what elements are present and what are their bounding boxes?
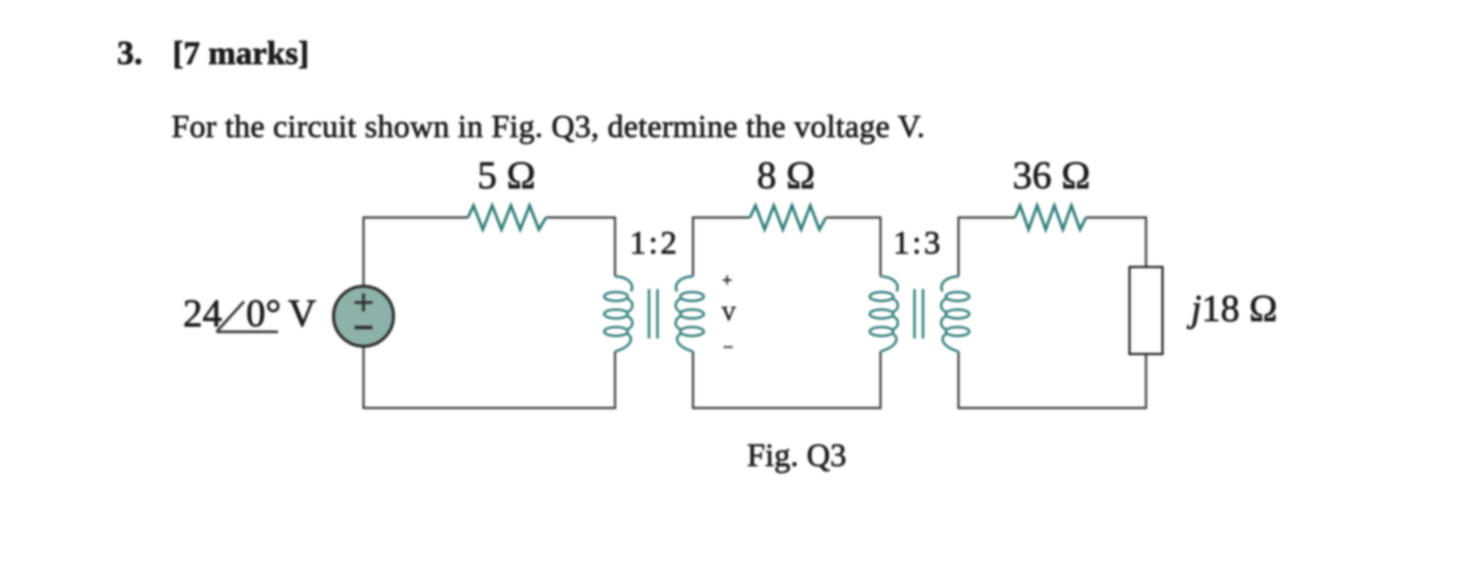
svg-text:Fig. Q3: Fig. Q3: [747, 438, 846, 474]
svg-text:3.: 3.: [117, 35, 143, 72]
svg-text:−: −: [723, 337, 733, 357]
svg-text:[7 marks]: [7 marks]: [173, 36, 310, 72]
svg-text:8 Ω: 8 Ω: [757, 154, 815, 197]
svg-text:+: +: [722, 270, 732, 290]
svg-text:24: 24: [183, 292, 222, 335]
svg-text:1:2: 1:2: [630, 226, 680, 262]
svg-text:j18 Ω: j18 Ω: [1186, 288, 1277, 330]
svg-text:0°: 0°: [246, 292, 281, 335]
svg-text:5 Ω: 5 Ω: [477, 154, 535, 197]
svg-text:For the circuit shown in Fig.: For the circuit shown in Fig. Q3, determ…: [172, 108, 926, 144]
svg-text:V: V: [288, 292, 316, 335]
svg-text:1:3: 1:3: [893, 226, 943, 262]
svg-text:V: V: [722, 303, 737, 325]
svg-text:36 Ω: 36 Ω: [1013, 154, 1091, 197]
